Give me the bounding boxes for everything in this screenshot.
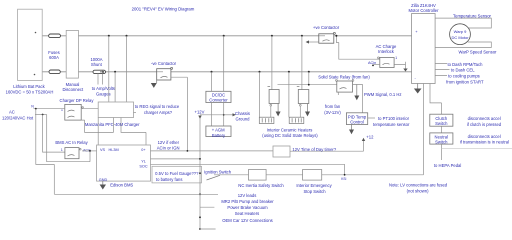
svg-text:if clutch is pressed: if clutch is pressed xyxy=(467,122,502,127)
svg-text:-ve Contactor: -ve Contactor xyxy=(151,61,177,66)
wire hot down around xyxy=(47,115,90,162)
svg-text:Interlock: Interlock xyxy=(378,49,395,54)
svg-text:DC Motor: DC Motor xyxy=(451,35,469,40)
svg-text:PWM Signal, 0.1 Hz: PWM Signal, 0.1 Hz xyxy=(364,92,401,97)
svg-text:Battery: Battery xyxy=(212,133,226,138)
wire bus to interlock xyxy=(336,36,379,59)
svg-text:600A: 600A xyxy=(49,55,59,60)
svg-text:to cooling pumps: to cooling pumps xyxy=(448,74,480,79)
node on bus for interlock xyxy=(335,35,337,37)
svg-text:Switch: Switch xyxy=(435,140,448,145)
svg-text:0+: 0+ xyxy=(141,148,146,152)
svg-text:N: N xyxy=(31,104,34,108)
svg-text:Seat Heaters: Seat Heaters xyxy=(235,211,259,216)
svg-text:0.5V to Fuel Gauge???: 0.5V to Fuel Gauge??? xyxy=(155,171,199,176)
svg-text:(3V-12V): (3V-12V) xyxy=(324,110,341,115)
svg-text:Edison BMS: Edison BMS xyxy=(110,183,133,188)
svg-text:(using DC Solid State Relays): (using DC Solid State Relays) xyxy=(262,133,318,138)
svg-text:to Dash CEL: to Dash CEL xyxy=(451,68,475,73)
battery Lithium Bat Pack xyxy=(18,9,43,80)
svg-text:Note: LV connections are fused: Note: LV connections are fused xyxy=(389,182,448,187)
faint line right xyxy=(442,148,512,150)
svg-text:disconnects accel: disconnects accel xyxy=(468,116,501,121)
speed sensor loop xyxy=(435,42,491,48)
svg-text:BMS AC In Relay: BMS AC In Relay xyxy=(55,140,88,145)
svg-text:Ground: Ground xyxy=(236,116,251,121)
svg-text:12V leads: 12V leads xyxy=(238,193,257,198)
svg-text:2001 "REV4" EV Wiring Diagram: 2001 "REV4" EV Wiring Diagram xyxy=(132,6,195,11)
manual disconnect xyxy=(66,30,78,78)
NC inertia safety switch xyxy=(249,170,267,181)
svg-text:Stop Switch: Stop Switch xyxy=(303,189,326,194)
svg-text:VS: VS xyxy=(100,148,106,152)
svg-text:to battery fans: to battery fans xyxy=(156,177,183,182)
controller ground xyxy=(417,84,419,89)
bottom rail xyxy=(54,193,218,195)
ground under Edison xyxy=(102,181,104,184)
svg-text:Disconnect: Disconnect xyxy=(62,87,84,92)
svg-text:+12: +12 xyxy=(366,134,374,139)
junction dots top bus xyxy=(108,35,303,37)
wire DP relay to charger xyxy=(81,108,98,110)
wire interlock output with down arrow xyxy=(394,62,405,69)
svg-text:WarP Speed Sensor: WarP Speed Sensor xyxy=(459,50,498,55)
hot wire xyxy=(35,114,47,116)
svg-text:temperature sensor: temperature sensor xyxy=(373,122,410,127)
wires to gauges xyxy=(98,74,103,85)
+12V rail xyxy=(199,118,201,229)
SSR output and ground xyxy=(353,85,363,113)
wire bus to SSRs xyxy=(260,36,309,117)
wires DC/DC to AGM battery xyxy=(212,103,224,127)
ground at -ve contactor xyxy=(156,80,158,83)
wire N down to BMS relay xyxy=(43,115,65,153)
neutral switch xyxy=(430,133,453,144)
svg-text:+ AGM: + AGM xyxy=(212,128,225,133)
BMS AC In relay xyxy=(55,140,90,159)
svg-text:if transmission is in neutral: if transmission is in neutral xyxy=(460,140,509,145)
svg-text:Switch: Switch xyxy=(435,121,448,126)
svg-text:Interior Ceramic Heaters: Interior Ceramic Heaters xyxy=(267,127,313,132)
N wire xyxy=(34,108,65,110)
motor Warp 9 xyxy=(450,24,471,45)
svg-text:from ignition START: from ignition START xyxy=(446,79,484,84)
chassis ground arrow xyxy=(224,114,233,116)
svg-text:Converter: Converter xyxy=(209,98,228,103)
clutch switch xyxy=(430,114,453,126)
svg-text:120/240VAC Hot: 120/240VAC Hot xyxy=(2,116,34,121)
svg-text:SOC: SOC xyxy=(139,165,147,169)
fuse F1 600A xyxy=(49,34,61,38)
controller aux stubs xyxy=(435,64,449,76)
-ve contactor xyxy=(151,61,177,80)
AGM battery xyxy=(206,126,231,137)
svg-text:Power Brake Vacuum: Power Brake Vacuum xyxy=(227,205,268,210)
charger DP relay xyxy=(60,98,95,120)
svg-text:to Dash RPM/Tach: to Dash RPM/Tach xyxy=(448,62,484,67)
clutch chain wire xyxy=(430,84,442,115)
heater SSR 2 xyxy=(298,90,309,104)
svg-text:Chassis: Chassis xyxy=(235,111,250,116)
svg-text:160VDC = 50 x TS200AH: 160VDC = 50 x TS200AH xyxy=(6,90,54,95)
timer xyxy=(273,146,290,157)
svg-text:to Amp/Volts: to Amp/Volts xyxy=(92,86,115,91)
svg-text:to HEPA Pedal: to HEPA Pedal xyxy=(434,163,461,168)
junction dots mid bus xyxy=(114,71,310,73)
wire charger to REG note xyxy=(134,112,137,114)
svg-text:1: 1 xyxy=(395,56,397,60)
heater element 1 xyxy=(259,117,274,123)
wires charger to Edison xyxy=(81,118,146,146)
12V stubs xyxy=(200,207,216,229)
svg-text:Charger DP Relay: Charger DP Relay xyxy=(60,98,95,103)
fuel gauge note box xyxy=(152,166,202,183)
svg-text:AC: AC xyxy=(9,110,15,115)
wire bus to charger xyxy=(109,36,127,102)
svg-text:YL: YL xyxy=(141,159,146,163)
svg-text:Manzanita PFC-40M Charger: Manzanita PFC-40M Charger xyxy=(85,122,140,127)
svg-text:+ve Contactor: +ve Contactor xyxy=(313,25,340,30)
svg-text:disconnects accel: disconnects accel xyxy=(468,134,501,139)
+ve contactor xyxy=(313,25,340,43)
wire bus to DC/DC xyxy=(212,36,224,92)
svg-text:(not shown): (not shown) xyxy=(407,189,429,194)
shunt 1000A xyxy=(93,70,106,73)
wire relay ACin to Edison xyxy=(82,150,97,152)
svg-text:1: 1 xyxy=(61,148,63,152)
svg-text:ACIn or IGN: ACIn or IGN xyxy=(157,145,180,150)
fuse F2 600A xyxy=(49,70,60,74)
svg-text:Motor Controller: Motor Controller xyxy=(408,8,439,13)
svg-text:Interior Emergency: Interior Emergency xyxy=(296,183,332,188)
svg-text:KSI: KSI xyxy=(341,177,346,181)
svg-text:Lithium Bat Pack: Lithium Bat Pack xyxy=(13,84,45,89)
wire Edison YL to rail xyxy=(151,158,201,160)
temperature sensor loop xyxy=(435,18,491,28)
interior emergency stop switch xyxy=(303,170,322,181)
svg-text:Control: Control xyxy=(350,120,364,125)
svg-text:to REG signal to reduce: to REG signal to reduce xyxy=(135,104,180,109)
svg-text:from fan: from fan xyxy=(325,104,341,109)
wire contactor coil to BMS line xyxy=(171,77,188,151)
svg-text:Gauges: Gauges xyxy=(96,92,111,97)
KSI wire to controller xyxy=(322,84,424,175)
svg-text:Temperature Sensor: Temperature Sensor xyxy=(453,13,492,18)
svg-text:+12V: +12V xyxy=(195,110,205,115)
svg-text:HL3M: HL3M xyxy=(109,148,119,152)
heater element 2 xyxy=(289,117,304,123)
wire mid bus xyxy=(42,71,411,73)
svg-text:Clutch: Clutch xyxy=(435,116,448,121)
wire Edison SOC to KSI xyxy=(151,164,345,175)
svg-text:NC Inertia Safety Switch: NC Inertia Safety Switch xyxy=(238,183,284,188)
wire AC loop to bottom rail xyxy=(36,109,55,195)
coil wire with left arrow xyxy=(309,41,319,43)
DC/DC converter xyxy=(206,91,231,102)
Edison BMS box xyxy=(97,145,151,181)
PID temp controller xyxy=(346,113,367,125)
svg-text:DC/DC: DC/DC xyxy=(212,92,225,97)
interlock box xyxy=(380,58,394,68)
svg-text:charger Amps?: charger Amps? xyxy=(144,110,173,115)
wire top bus xyxy=(42,35,411,37)
svg-text:MR2 P/B Pump and breaker: MR2 P/B Pump and breaker xyxy=(221,199,274,204)
heater SSR 1 xyxy=(269,90,279,104)
+12V tap xyxy=(200,114,224,116)
svg-text:to PT100 interior: to PT100 interior xyxy=(378,116,410,121)
svg-text:Solid State Relay (from fan): Solid State Relay (from fan) xyxy=(318,74,370,79)
svg-text:OEM Car 12V Connections: OEM Car 12V Connections xyxy=(222,218,273,223)
charger box xyxy=(98,102,133,118)
svg-text:Ignition Switch: Ignition Switch xyxy=(204,170,232,175)
svg-text:Warp 9: Warp 9 xyxy=(454,29,468,34)
wire Edison 0+ / 12V if ether xyxy=(151,150,274,152)
SSR trigger line xyxy=(278,84,337,86)
svg-text:Shunt: Shunt xyxy=(91,62,103,67)
